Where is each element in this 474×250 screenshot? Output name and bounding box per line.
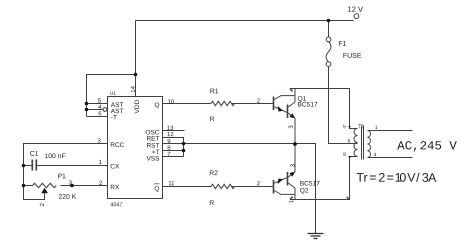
svg-text:Q2: Q2 <box>300 188 309 195</box>
svg-text:P1: P1 <box>57 173 66 180</box>
svg-text:VDD: VDD <box>134 99 141 113</box>
svg-text:11: 11 <box>168 181 175 187</box>
svg-text:BC517: BC517 <box>300 181 320 188</box>
svg-text:-T: -T <box>111 115 117 122</box>
svg-text:7: 7 <box>167 152 171 158</box>
svg-text:T1: T1 <box>358 124 364 130</box>
svg-text:CX: CX <box>110 164 120 171</box>
svg-text:13: 13 <box>167 126 174 132</box>
svg-text:VSS: VSS <box>146 155 160 162</box>
svg-text:RX: RX <box>110 184 120 191</box>
svg-text:12 V: 12 V <box>348 5 363 14</box>
svg-text:U1: U1 <box>110 91 116 97</box>
svg-text:12: 12 <box>167 132 174 138</box>
svg-text:6: 6 <box>348 139 351 145</box>
svg-text:100 nF: 100 nF <box>44 153 65 160</box>
svg-text:4047: 4047 <box>110 202 122 208</box>
svg-text:Q: Q <box>154 186 159 193</box>
svg-text:BC517: BC517 <box>298 102 318 109</box>
svg-text:R2: R2 <box>209 170 218 177</box>
svg-text:AC,245 V: AC,245 V <box>397 139 457 153</box>
svg-text:3: 3 <box>291 163 297 167</box>
svg-text:C1: C1 <box>30 151 39 158</box>
svg-text:10: 10 <box>168 100 175 106</box>
svg-text:Tr=2=10V/3A: Tr=2=10V/3A <box>356 171 437 185</box>
svg-text:8: 8 <box>343 152 346 158</box>
svg-text:1: 1 <box>375 125 378 131</box>
svg-text:Q: Q <box>154 102 159 109</box>
svg-text:9: 9 <box>167 139 171 145</box>
svg-text:14: 14 <box>131 85 137 92</box>
svg-text:3: 3 <box>289 125 295 129</box>
svg-text:FUSE: FUSE <box>343 53 362 60</box>
svg-text:2: 2 <box>40 202 46 206</box>
svg-text:220 K: 220 K <box>58 194 76 201</box>
svg-text:R: R <box>210 116 215 123</box>
svg-text:4: 4 <box>374 152 377 158</box>
svg-text:F1: F1 <box>338 41 346 48</box>
svg-text:RCC: RCC <box>110 142 124 149</box>
svg-text:R1: R1 <box>210 88 219 95</box>
svg-text:R: R <box>209 200 214 207</box>
svg-text:5: 5 <box>343 124 346 130</box>
